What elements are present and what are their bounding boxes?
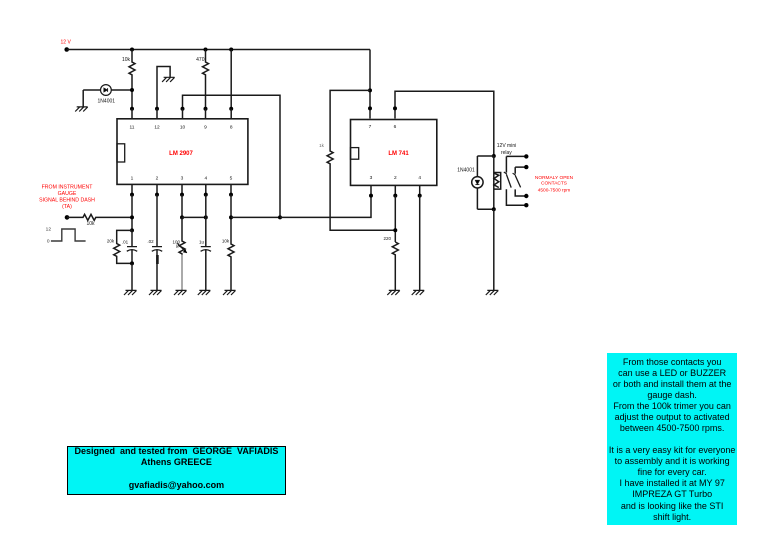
ground U2 pin4 [412,290,425,295]
svg-text:.02: .02 [147,239,154,244]
node below U2 pin4 [418,194,422,198]
svg-text:.01: .01 [122,240,129,245]
node rail junction pin8 [229,48,233,52]
resistor R2 470 [203,50,209,109]
node SW2 contact bottom [524,194,528,198]
switch SW2 contact set [513,167,527,196]
svg-text:4: 4 [418,175,421,181]
svg-text:12: 12 [154,124,160,130]
node above pin9 [204,107,208,111]
wire +12V rail [67,49,370,51]
node rail junction pin11 [130,48,134,52]
node above U2 pin6 [393,106,397,110]
svg-text:20k: 20k [107,239,115,244]
svg-text:7: 7 [369,124,372,130]
svg-text:FROM INSTRUMENT: FROM INSTRUMENT [42,184,94,190]
node below pin2 [155,193,159,197]
resistor R6 1k [327,90,395,230]
node pin2 220 junction [393,228,397,232]
node pin5 wire junction [229,215,233,219]
node below U2 pin2 [393,194,397,198]
node above pin11 [130,107,134,111]
op-amp U2 LM741 body [351,120,437,186]
svg-text:12 V: 12 V [61,40,72,46]
wire U2 pin4 to ground [419,196,421,291]
svg-text:12: 12 [46,227,52,233]
node below pin1 [130,193,134,197]
node above pin8 [229,107,233,111]
svg-text:NORMALY OPEN: NORMALY OPEN [535,175,574,181]
svg-text:10k: 10k [122,57,131,63]
ground U2 pin2 [387,290,400,295]
svg-text:SIGNAL BEHIND DASH: SIGNAL BEHIND DASH [39,198,95,204]
svg-text:1N4001: 1N4001 [457,167,475,173]
capacitor C2 .02 [152,195,162,291]
wire pin1 column [131,195,133,231]
node SW1 contact top [524,154,528,158]
svg-text:4: 4 [204,176,207,182]
resistor R4 20k [114,230,132,263]
svg-text:2: 2 [394,175,397,181]
node pin7 1k junction [368,88,372,92]
svg-text:1: 1 [131,176,134,182]
svg-text:3: 3 [370,175,373,181]
node input terminal [65,215,70,220]
svg-text:10k: 10k [222,239,230,244]
text box notes cyan [607,353,737,525]
node A junction [278,215,282,219]
svg-text:9: 9 [204,124,207,130]
op-amp U1 LM2907 body [117,119,248,185]
wire pin10 to node A [183,95,281,217]
wire relay to ground [493,209,495,290]
node SW2 contact top [524,165,528,169]
node above U2 pin7 [368,106,372,110]
svg-text:6: 6 [394,124,397,130]
switch SW1 contact set [504,156,527,205]
svg-text:8: 8 [230,124,233,130]
node SW1 contact bottom [524,203,528,207]
diode D1 1N4001 [83,85,132,96]
wire rail down to U2 pin7 [369,50,371,119]
svg-text:10: 10 [180,124,186,130]
svg-text:1u: 1u [199,240,205,245]
svg-text:LM 2907: LM 2907 [169,151,193,157]
potentiometer VR1 100k [177,217,187,290]
node pin1 parallel top [130,228,134,232]
ground pin12 [162,77,175,82]
wire node A to U2 pin3 [280,196,371,218]
node below U2 pin3 [369,194,373,198]
node below pin3 [180,193,184,197]
capacitor C1 .01 [127,230,137,263]
ground diode branch [75,107,88,112]
text box author cyan [67,446,287,495]
svg-text:(TA): (TA) [62,204,72,210]
resistor R7 220 [392,242,398,290]
node pin1 parallel bottom [130,261,134,265]
ground pin2col [149,290,162,295]
svg-text:220: 220 [384,236,392,241]
node 12V supply terminal [64,47,69,52]
svg-text:1k: 1k [319,143,325,148]
node pin1 input junction [130,215,134,219]
svg-text:10k: 10k [86,221,95,227]
node relay coil bottom [492,207,496,211]
node below pin4 [204,193,208,197]
ground pin3col [174,290,187,295]
ground relay [486,290,499,295]
wire top pins into U1 [132,109,231,119]
svg-text:2: 2 [156,176,159,182]
wire U2 pin6 up [395,91,494,156]
node relay coil top [492,154,496,158]
ground pin5col [223,290,236,295]
node above pin10 [181,107,185,111]
ground pin1 [124,290,137,295]
svg-text:4500-7500 rpm: 4500-7500 rpm [538,187,571,193]
svg-text:11: 11 [130,124,135,130]
waveform input pulse [51,229,86,241]
wire U2 bottom pins [371,185,420,195]
wire pin5 to node A [231,216,280,218]
wire bottom pins from U1 [132,184,231,194]
wire diode to ground [82,90,84,107]
svg-text:3: 3 [181,176,184,182]
resistor R1 10k [129,50,135,109]
wire pin8 to rail [230,50,232,109]
wire U2 pin2 down [394,196,396,242]
svg-text:470: 470 [196,57,205,63]
ground pin4col [198,290,211,295]
wire pin1 to ground [131,263,133,290]
diode D2 1N4001 [472,156,494,209]
node pin4 wire junction [204,215,208,219]
svg-text:0: 0 [47,238,50,244]
resistor R3 10k input [67,214,132,220]
svg-text:1N4001: 1N4001 [98,99,116,105]
svg-text:GAUGE: GAUGE [58,191,77,197]
node diode junction pin11 column [130,88,134,92]
node above pin12 [155,107,159,111]
resistor R5 10k pin5 [228,195,234,291]
svg-text:LM 741: LM 741 [388,151,409,157]
wire pin12 to ground [157,67,170,109]
svg-text:12V mini: 12V mini [497,143,516,149]
svg-text:CONTACTS: CONTACTS [541,180,567,186]
svg-text:5: 5 [230,176,233,182]
node pin3 wire junction [180,215,184,219]
wire pin3 to pin4 [182,216,206,218]
relay K1 coil [494,156,501,209]
capacitor C3 1u [201,195,211,291]
wire pin3 column [181,195,183,218]
node rail junction pin9 [204,48,208,52]
svg-text:relay: relay [501,150,512,156]
node below pin5 [229,193,233,197]
